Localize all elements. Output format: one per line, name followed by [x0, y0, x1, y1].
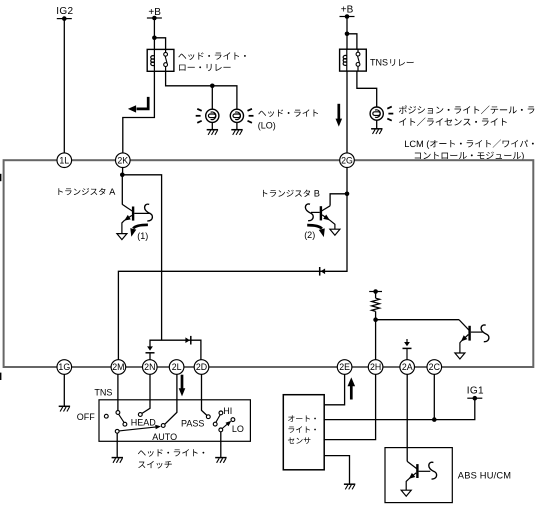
- switch contact TNS: [116, 411, 120, 415]
- wire: [376, 120, 378, 129]
- label LCM module: [405, 139, 534, 149]
- switch arm TNS: [119, 414, 125, 422]
- transistor A: [132, 207, 134, 221]
- ground switch right: [215, 457, 226, 459]
- connector 2N: [143, 360, 158, 375]
- svg-text:2E: 2E: [339, 362, 350, 372]
- svg-text:PASS: PASS: [181, 419, 204, 429]
- wire 2N to HEAD contact: [142, 374, 150, 413]
- svg-text:2L: 2L: [172, 362, 182, 372]
- svg-text:2D: 2D: [196, 362, 207, 372]
- LCM box: [4, 160, 534, 367]
- ground lamp 2: [231, 129, 242, 131]
- note arrow (1): [133, 225, 148, 229]
- diode above 2N (pointing down): [147, 346, 153, 350]
- svg-text:HEAD: HEAD: [131, 417, 157, 427]
- svg-text:IG1: IG1: [467, 386, 484, 397]
- wire junction to transistor C: [376, 319, 459, 321]
- switch contact PASS: [206, 415, 210, 419]
- lamp headlight LO 1: [206, 109, 219, 122]
- diode on 2M-2G wire (pointing left): [321, 269, 326, 275]
- connector 2C: [427, 360, 442, 375]
- svg-text:TNS: TNS: [370, 58, 388, 68]
- wire relay K1 contact to lamps: [166, 71, 237, 109]
- wire sensor to IG1 rail: [324, 398, 475, 419]
- wire 2L to AUTO contact: [165, 374, 177, 424]
- switch pivot left: [115, 429, 119, 433]
- ground lamp 1: [207, 129, 218, 131]
- wire junction to transistor B: [330, 194, 347, 206]
- connector 2L: [169, 360, 184, 375]
- switch arm to LO: [222, 423, 228, 428]
- wire relay K2 coil to 2G: [346, 71, 348, 153]
- svg-text:ABS HU/CM: ABS HU/CM: [458, 470, 511, 480]
- wire 2E to sensor: [324, 374, 344, 405]
- connector 2K: [116, 153, 131, 168]
- ground switch left: [112, 457, 123, 459]
- wire +B to relay K1: [153, 18, 155, 50]
- diode above 2A inside LCM (pointing down): [406, 339, 408, 343]
- wire 2N/2D header: [150, 340, 201, 360]
- switch contact AUTO: [161, 424, 165, 428]
- wire junction down to transistor A: [121, 175, 123, 205]
- flow arrow TNS: [337, 104, 340, 120]
- label transistor A: [58, 188, 115, 195]
- wire pivot left to ground: [116, 433, 118, 457]
- connector 2E: [337, 360, 352, 375]
- svg-text:1G: 1G: [58, 362, 70, 372]
- svg-text:2K: 2K: [117, 155, 128, 165]
- wire IG2 to 1L: [63, 19, 65, 154]
- svg-text:OFF: OFF: [77, 412, 95, 422]
- svg-text:AUTO: AUTO: [152, 432, 177, 442]
- connector 1L: [57, 153, 72, 168]
- auto light sensor box: [283, 395, 324, 470]
- svg-text:(LO): (LO): [258, 120, 276, 130]
- transistor C: [468, 326, 470, 341]
- svg-text:HI: HI: [223, 406, 232, 416]
- edge artifact marks: [0, 174, 1, 181]
- label headlight switch: [138, 449, 204, 457]
- wire resistor to 2H: [375, 311, 377, 360]
- svg-text:(1): (1): [137, 231, 148, 241]
- label transistor B: [263, 190, 319, 197]
- lamp headlight LO 2: [230, 109, 243, 122]
- svg-text:2M: 2M: [112, 362, 124, 372]
- svg-text:(2): (2): [304, 230, 315, 240]
- lamp TNS position/tail: [370, 107, 383, 120]
- wire junction to vertical riser: [122, 175, 161, 340]
- ground 1G: [59, 405, 70, 407]
- note arrow (2): [307, 225, 322, 229]
- switch pivot right: [219, 428, 223, 432]
- wire relay K1 coil to 2K: [123, 71, 155, 153]
- svg-text:2N: 2N: [144, 362, 155, 372]
- connector 2G: [340, 153, 355, 168]
- wire diode to 2N: [149, 353, 151, 360]
- diode on header (pointing right): [185, 337, 190, 343]
- ground sensor: [344, 483, 355, 485]
- connector 2A: [400, 360, 415, 375]
- wire 2D to PASS contact: [202, 374, 208, 415]
- relay K1 headlight low relay: [147, 49, 174, 71]
- wire sensor to ground: [324, 456, 349, 485]
- label relay K1: [178, 52, 246, 60]
- svg-text:IG2: IG2: [56, 6, 73, 17]
- connector 1G: [57, 360, 72, 375]
- svg-text:TNS: TNS: [94, 388, 112, 398]
- switch contact OFF: [104, 414, 108, 418]
- headlight switch box: [99, 400, 250, 442]
- wire relay K2 contact to TNS lamp: [357, 71, 377, 107]
- switch contact HI: [219, 411, 223, 415]
- flow arrow headlight low: [137, 97, 149, 109]
- connector 2H: [368, 360, 383, 375]
- label headlight (LO): [258, 109, 318, 117]
- svg-text:+B: +B: [341, 5, 354, 16]
- wire pivot right to ground: [220, 432, 222, 458]
- wire 1G to ground: [63, 374, 65, 406]
- resistor R1: [372, 298, 380, 311]
- label auto light sensor: [288, 415, 316, 421]
- wire 2K junction: [122, 168, 124, 175]
- svg-text:2C: 2C: [429, 362, 441, 372]
- wire 2C down: [433, 374, 435, 419]
- ground TNS lamp: [371, 128, 382, 130]
- wire 2A to ABS: [406, 374, 408, 461]
- wire +B to relay K2: [346, 17, 348, 50]
- label position/tail/license lamps: [399, 106, 535, 115]
- ABS HU/CM box: [385, 448, 452, 503]
- flow arrow 2L: [181, 375, 184, 390]
- wire: [236, 122, 238, 129]
- switch arm main (to AUTO): [119, 427, 157, 431]
- connector 2M: [111, 360, 126, 375]
- svg-text:1L: 1L: [59, 155, 69, 165]
- flow arrow 2E: [348, 377, 356, 386]
- svg-text:2H: 2H: [370, 362, 381, 372]
- switch arm HI: [216, 415, 220, 423]
- wire: [211, 122, 213, 129]
- svg-text:2A: 2A: [402, 362, 413, 372]
- switch contact HEAD: [138, 413, 142, 417]
- transistor B: [320, 206, 322, 220]
- connector 2D: [194, 360, 209, 375]
- switch contact LO: [231, 418, 235, 422]
- wire supply to resistor: [375, 292, 377, 299]
- node internal supply: [369, 291, 382, 293]
- relay K2 TNS relay: [340, 49, 367, 71]
- wire 2H to sensor: [324, 374, 375, 439]
- svg-text:LO: LO: [232, 424, 244, 434]
- wire 2G down / 2M riser with junctions: [118, 168, 347, 361]
- transistor Q4 (ABS): [416, 464, 418, 478]
- wire 2M to switch: [117, 374, 119, 410]
- svg-text:2G: 2G: [341, 155, 353, 165]
